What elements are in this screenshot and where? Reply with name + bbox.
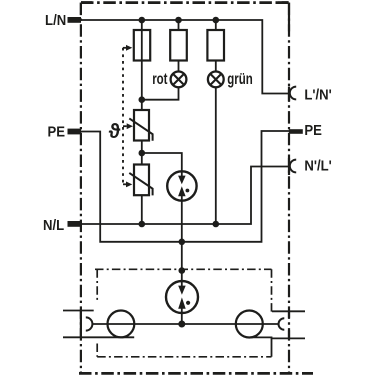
svg-text:PE: PE [304,122,322,139]
svg-text:L'/N': L'/N' [304,86,331,103]
svg-text:grün: grün [227,70,252,87]
svg-text:L/N: L/N [45,11,66,28]
svg-text:N/L: N/L [43,216,65,233]
svg-text:PE: PE [47,123,65,140]
svg-text:ϑ: ϑ [109,121,121,143]
svg-text:N'/L': N'/L' [304,157,331,174]
svg-text:rot: rot [152,71,168,88]
